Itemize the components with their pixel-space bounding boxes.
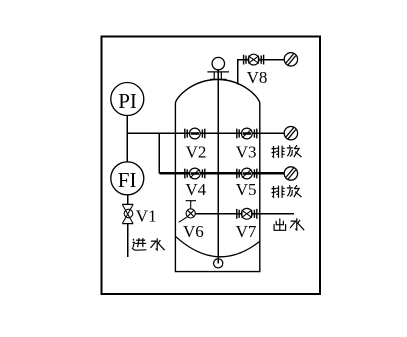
svg-text:V4: V4 xyxy=(185,180,206,199)
svg-text:V1: V1 xyxy=(136,206,157,225)
svg-text:PI: PI xyxy=(118,89,137,113)
svg-text:V6: V6 xyxy=(183,222,204,241)
svg-text:FI: FI xyxy=(118,168,137,192)
svg-text:V8: V8 xyxy=(247,68,268,87)
svg-text:V5: V5 xyxy=(236,180,257,199)
svg-text:V3: V3 xyxy=(236,142,257,161)
svg-text:V7: V7 xyxy=(236,222,257,241)
svg-text:V2: V2 xyxy=(186,142,207,161)
